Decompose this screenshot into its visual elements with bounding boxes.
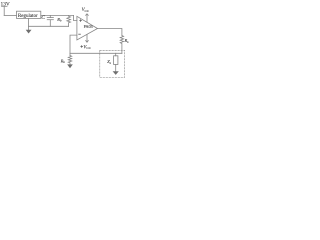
wire stub to ground below rail <box>28 26 30 29</box>
svg-text:Ze: Ze <box>107 59 111 65</box>
wire top rail (regulator output) <box>41 14 74 16</box>
wire feedback from load node <box>70 52 122 54</box>
ground (regulator common) <box>26 30 32 34</box>
label +Vcc <box>80 45 83 48</box>
capacitor C <box>47 15 53 26</box>
regulator U1 box <box>17 11 41 18</box>
resistor Rb (top) <box>67 15 71 26</box>
wire Ze to ground <box>115 65 117 72</box>
wire from 13V to regulator input <box>3 6 5 15</box>
impedance Ze box <box>114 56 118 65</box>
svg-text:13V: 13V <box>1 2 10 8</box>
wire bottom rail <box>29 25 69 27</box>
resistor RL <box>120 36 123 54</box>
svg-text:VCC: VCC <box>82 8 90 13</box>
svg-text:C: C <box>41 15 45 21</box>
label + input <box>79 19 82 22</box>
Vcc arrow up <box>86 14 89 22</box>
wire op-amp output <box>98 29 122 36</box>
svg-text:RL: RL <box>124 38 130 44</box>
wire - input <box>70 35 77 55</box>
svg-text:Regulator: Regulator <box>18 14 38 19</box>
wire load tap down <box>115 53 117 56</box>
dashed load enclosure <box>100 50 125 77</box>
svg-text:PA05: PA05 <box>84 24 93 29</box>
ground (bottom middle) <box>67 64 73 68</box>
svg-text:Rb: Rb <box>60 58 66 64</box>
op-amp U2 triangle <box>77 16 98 40</box>
svg-text:Rb: Rb <box>56 17 62 23</box>
label - input <box>78 33 81 35</box>
-Vcc arrow down <box>86 34 89 42</box>
svg-text:VCC: VCC <box>83 45 91 50</box>
resistor Rb (bottom) <box>68 56 71 65</box>
wire jog to + input <box>74 15 77 20</box>
wire regulator common down <box>28 18 30 26</box>
ground (load) <box>113 71 119 75</box>
node 13V supply terminal <box>2 5 8 7</box>
